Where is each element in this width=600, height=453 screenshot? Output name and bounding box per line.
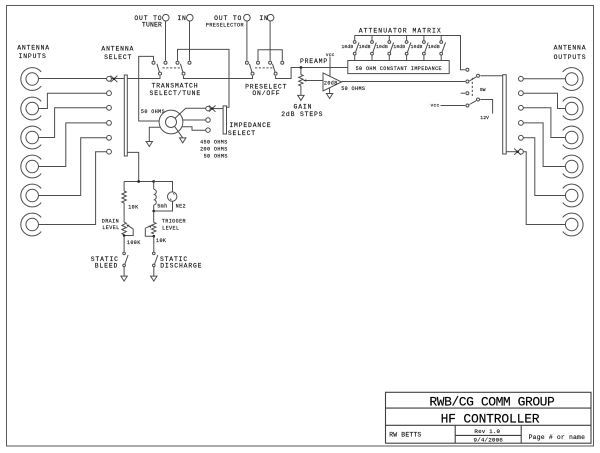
- svg-text:DRAIN: DRAIN: [102, 218, 119, 224]
- svg-text:BLEED: BLEED: [95, 263, 118, 270]
- svg-text:10K: 10K: [128, 204, 139, 210]
- svg-text:ANTENNA: ANTENNA: [554, 45, 587, 52]
- svg-text:vcc: vcc: [431, 104, 440, 109]
- svg-text:PRESELECTOR: PRESELECTOR: [206, 22, 244, 28]
- svg-text:IN: IN: [177, 15, 186, 22]
- svg-text:RW BETTS: RW BETTS: [389, 431, 421, 438]
- svg-text:TUNER: TUNER: [142, 21, 162, 28]
- svg-text:GAIN: GAIN: [294, 104, 313, 111]
- svg-text:ANTENNA: ANTENNA: [101, 46, 134, 53]
- svg-text:50 OHMS: 50 OHMS: [141, 109, 165, 115]
- svg-text:10K: 10K: [156, 238, 167, 244]
- svg-text:9/4/2006: 9/4/2006: [473, 436, 503, 443]
- svg-text:LEVEL: LEVEL: [102, 225, 119, 231]
- svg-text:10dB: 10dB: [411, 44, 423, 50]
- svg-text:TRANSMATCH: TRANSMATCH: [152, 83, 199, 90]
- svg-text:200 OHMS: 200 OHMS: [200, 146, 228, 152]
- svg-text:12V: 12V: [480, 115, 489, 121]
- svg-text:5mh: 5mh: [157, 204, 167, 210]
- svg-text:Rev 1.0: Rev 1.0: [474, 428, 500, 435]
- svg-text:SELECT/TUNE: SELECT/TUNE: [150, 90, 202, 97]
- svg-text:10dB: 10dB: [359, 44, 371, 50]
- svg-text:OUTPUTS: OUTPUTS: [554, 54, 587, 61]
- svg-text:Page # or name: Page # or name: [529, 434, 586, 441]
- svg-text:20dB: 20dB: [324, 80, 338, 86]
- svg-text:TRIGGER: TRIGGER: [162, 218, 186, 224]
- svg-text:ATTENUATOR MATRIX: ATTENUATOR MATRIX: [359, 28, 442, 35]
- svg-text:450 OHMS: 450 OHMS: [200, 139, 228, 145]
- svg-text:10dB: 10dB: [393, 44, 405, 50]
- svg-text:SELECT: SELECT: [104, 54, 132, 61]
- svg-text:2dB STEPS: 2dB STEPS: [281, 111, 323, 118]
- svg-text:10dB: 10dB: [376, 44, 388, 50]
- svg-text:INPUTS: INPUTS: [19, 53, 47, 60]
- svg-text:LEVEL: LEVEL: [162, 225, 179, 231]
- svg-text:NE2: NE2: [176, 204, 186, 210]
- svg-text:DISCHARGE: DISCHARGE: [160, 263, 202, 270]
- svg-text:IMPEDANCE: IMPEDANCE: [229, 122, 271, 129]
- svg-text:50 OHMS: 50 OHMS: [204, 154, 228, 160]
- svg-text:ANTENNA: ANTENNA: [17, 45, 50, 52]
- svg-text:RWB/CG COMM GROUP: RWB/CG COMM GROUP: [429, 394, 555, 409]
- svg-text:HF CONTROLLER: HF CONTROLLER: [441, 411, 540, 426]
- svg-text:50 OHM CONSTANT IMPEDANCE: 50 OHM CONSTANT IMPEDANCE: [356, 66, 442, 72]
- svg-text:10dB: 10dB: [341, 44, 353, 50]
- svg-text:IN: IN: [259, 15, 268, 22]
- svg-text:SW: SW: [480, 87, 486, 93]
- svg-text:10dB: 10dB: [428, 44, 440, 50]
- svg-text:OUT TO: OUT TO: [214, 15, 242, 22]
- svg-text:100K: 100K: [127, 240, 141, 246]
- svg-text:ON/OFF: ON/OFF: [252, 90, 280, 97]
- svg-text:50 OHMS: 50 OHMS: [341, 86, 365, 92]
- svg-text:PREAMP: PREAMP: [300, 58, 328, 65]
- svg-text:SELECT: SELECT: [228, 130, 256, 137]
